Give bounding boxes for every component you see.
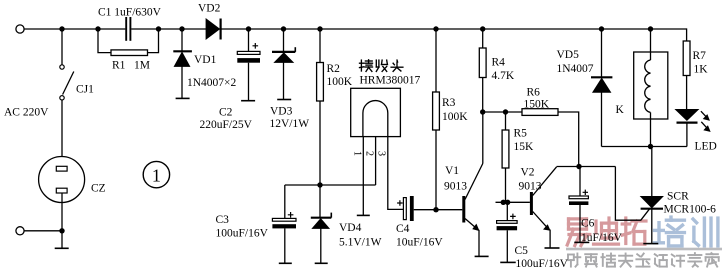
svg-text:R2: R2 <box>327 63 341 75</box>
watermark underline bar <box>566 248 722 251</box>
capacitor C1 plates <box>125 17 127 41</box>
wire V2 base node <box>496 201 530 203</box>
svg-text:1: 1 <box>152 165 161 185</box>
watermark small char zhuan <box>688 253 701 267</box>
IR receiver dome <box>363 101 388 137</box>
resistor R1 branch wires <box>98 29 111 53</box>
svg-text:C2: C2 <box>219 106 233 118</box>
svg-text:R4: R4 <box>492 57 506 69</box>
label receiver jie shou tou CJK <box>360 60 373 72</box>
watermark small char xian <box>636 254 649 267</box>
watermark big char tuo <box>622 218 646 244</box>
capacitor C2 electrolytic <box>246 26 251 31</box>
watermark small char pin <box>585 254 597 266</box>
pin 2 wire <box>375 137 377 185</box>
watermark small char he <box>601 254 615 267</box>
svg-text:C1 1uF/630V: C1 1uF/630V <box>98 7 162 19</box>
watermark big char xun <box>693 218 718 246</box>
junction dot mid supply <box>317 182 322 187</box>
svg-text:100K: 100K <box>327 76 353 88</box>
resistor R2 <box>317 26 322 31</box>
svg-text:VD3: VD3 <box>270 106 293 118</box>
svg-text:V2: V2 <box>521 166 535 178</box>
svg-text:12V/1W: 12V/1W <box>270 118 310 130</box>
svg-text:VD2: VD2 <box>198 3 221 15</box>
socket CZ <box>39 157 85 203</box>
transistor V2 9013 <box>530 192 533 215</box>
svg-text:R1: R1 <box>112 59 126 71</box>
wire top rail VD2 cathode to right end <box>220 28 686 30</box>
wire VD5 to LED bottom node <box>602 146 687 148</box>
watermark small char jia <box>706 253 719 267</box>
zener diode VD3 <box>281 26 286 31</box>
svg-text:100K: 100K <box>442 111 468 123</box>
relay K coil <box>648 26 653 31</box>
diode VD1 <box>179 26 184 31</box>
junction dot relay/SCR node <box>648 144 653 149</box>
zener diode VD4 <box>319 185 321 217</box>
svg-text:9013: 9013 <box>519 181 542 193</box>
diode VD2 <box>206 19 220 39</box>
svg-text:220uF/25V: 220uF/25V <box>200 119 253 131</box>
capacitor C4 electrolytic series <box>403 198 406 220</box>
svg-text:K: K <box>616 104 625 116</box>
svg-text:150K: 150K <box>524 98 550 110</box>
svg-text:R7: R7 <box>693 50 707 62</box>
svg-text:C5: C5 <box>515 245 529 257</box>
svg-text:VD5: VD5 <box>557 49 580 61</box>
svg-text:1: 1 <box>352 151 363 156</box>
watermark big char yi <box>567 219 590 246</box>
svg-text:VD1: VD1 <box>194 54 217 66</box>
svg-text:C6: C6 <box>581 217 595 229</box>
svg-text:SCR: SCR <box>667 190 689 202</box>
wire V1 collector node <box>483 111 522 113</box>
svg-text:2: 2 <box>364 151 375 156</box>
switch CJ1 <box>61 29 63 65</box>
svg-text:CJ1: CJ1 <box>76 84 94 96</box>
resistor R3 <box>433 26 438 31</box>
LED diode <box>675 109 698 120</box>
svg-text:100uF/16V: 100uF/16V <box>216 227 269 239</box>
svg-text:9013: 9013 <box>444 181 467 193</box>
diode VD5 <box>599 26 604 31</box>
svg-text:C4: C4 <box>396 223 410 235</box>
watermark small char ji <box>672 255 684 267</box>
wire V2 collector node <box>557 166 616 168</box>
figure number 1 circled <box>143 161 169 187</box>
junction dot C6/gate node <box>576 164 581 169</box>
watermark small char she2 <box>655 254 667 266</box>
wire CZ below junction to common <box>61 231 63 248</box>
svg-text:4.7K: 4.7K <box>492 70 515 82</box>
svg-text:1uF/16V: 1uF/16V <box>581 232 623 244</box>
wire SCR gate path <box>615 167 649 221</box>
wire bottom-left terminal to CZ node <box>24 230 62 232</box>
watermark small char she <box>568 254 580 267</box>
svg-text:V1: V1 <box>445 165 459 177</box>
IR receiver HRM380017 box <box>351 88 401 136</box>
svg-text:CZ: CZ <box>91 183 106 195</box>
junction dot CZ bottom <box>59 228 64 233</box>
svg-text:VD4: VD4 <box>339 222 362 234</box>
junction dot R5 top <box>503 109 508 114</box>
resistor R4 <box>480 26 485 31</box>
resistor R7 <box>683 41 690 76</box>
svg-text:5.1V/1W: 5.1V/1W <box>339 236 382 248</box>
resistor R6 <box>522 109 558 116</box>
junction dot C4-R3-V1 <box>433 207 438 212</box>
svg-text:1K: 1K <box>694 63 709 75</box>
wire mid supply node <box>285 184 376 186</box>
capacitor C6 electrolytic <box>579 167 581 197</box>
svg-text:1N4007: 1N4007 <box>557 63 594 75</box>
svg-text:AC 220V: AC 220V <box>4 107 49 119</box>
pin 3 wire <box>388 137 404 210</box>
thyristor SCR MCR100-6 <box>651 147 653 197</box>
svg-text:C3: C3 <box>216 214 230 226</box>
svg-text:HRM380017: HRM380017 <box>360 74 421 86</box>
wire top-right corner down to R7 <box>686 28 688 41</box>
transistor V1 9013 <box>462 196 465 223</box>
resistor R1 box <box>111 50 148 56</box>
watermark big char pei <box>655 217 685 246</box>
capacitor C3 electrolytic <box>284 185 286 218</box>
svg-text:100uF/16V: 100uF/16V <box>516 258 569 270</box>
junction dots R5/C5 base node <box>501 200 506 205</box>
svg-text:1M: 1M <box>134 59 150 71</box>
svg-text:R6: R6 <box>527 86 541 98</box>
terminal input top <box>16 25 24 33</box>
LED emission arrows <box>701 111 708 118</box>
capacitor C5 electrolytic <box>506 202 508 220</box>
junction dot top rail at CJ1 <box>59 26 64 31</box>
svg-text:3: 3 <box>376 151 387 156</box>
svg-text:R5: R5 <box>514 128 528 140</box>
wire top rail C1 right plate to VD2 anode <box>131 28 206 30</box>
svg-text:LED: LED <box>695 140 717 152</box>
pin 1 wire <box>362 137 364 216</box>
junction dot C1 right <box>156 26 161 31</box>
svg-text:10uF/16V: 10uF/16V <box>396 236 443 248</box>
watermark small char tian <box>619 254 632 267</box>
junction dot R4/collector <box>480 109 485 114</box>
svg-text:1N4007×2: 1N4007×2 <box>187 77 237 89</box>
svg-text:15K: 15K <box>514 141 535 153</box>
svg-text:MCR100-6: MCR100-6 <box>664 203 717 215</box>
terminal input bottom <box>16 227 24 235</box>
relay K box <box>634 52 668 119</box>
watermark big char di <box>594 218 619 244</box>
common bar below CZ <box>55 247 69 249</box>
wire top rail left (L terminal to C1 left plate) <box>24 28 125 30</box>
resistor R5 <box>505 112 507 130</box>
svg-text:R3: R3 <box>442 97 456 109</box>
junction dot C1 left <box>95 26 100 31</box>
